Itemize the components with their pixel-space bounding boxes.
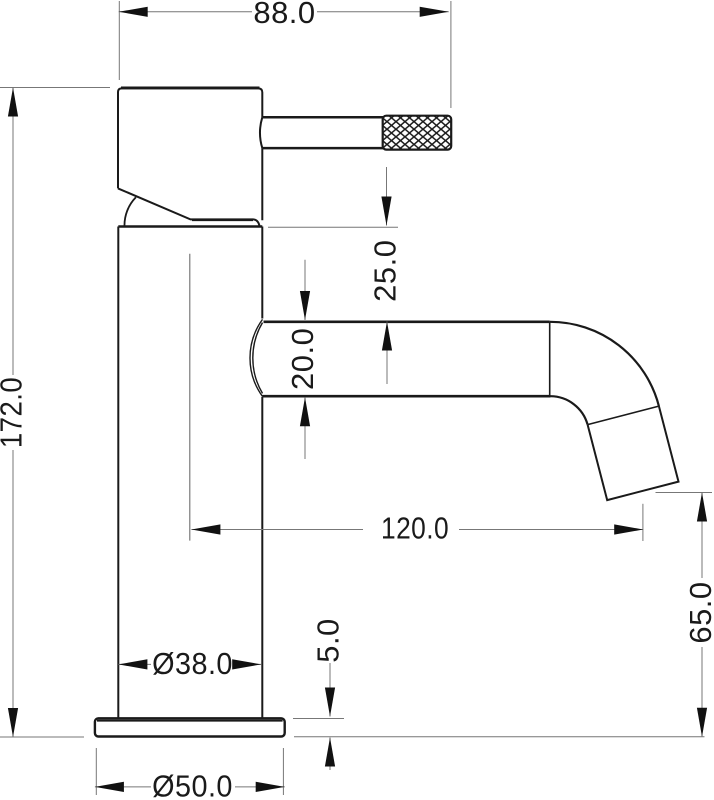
svg-text:172.0: 172.0	[0, 377, 29, 448]
svg-text:Ø50.0: Ø50.0	[152, 769, 233, 800]
spout segment joint lines	[550, 322, 659, 425]
svg-text:20.0: 20.0	[285, 328, 320, 390]
svg-text:25.0: 25.0	[368, 240, 403, 302]
svg-text:88.0: 88.0	[253, 0, 315, 30]
ball joint arc	[124, 197, 135, 226]
handle lever shaft	[260, 117, 383, 148]
ground extension line	[294, 736, 705, 738]
dimension diameter 50.0	[95, 748, 285, 800]
svg-text:65.0: 65.0	[683, 581, 714, 643]
faucet head body	[118, 88, 262, 226]
column body	[118, 227, 262, 719]
dimension 88.0 top	[119, 0, 451, 108]
column centerline	[189, 254, 191, 541]
dimension 120.0	[191, 504, 643, 546]
base plate	[95, 718, 285, 736]
dimension 65.0	[656, 493, 714, 737]
knurled grip	[383, 116, 452, 150]
base plate top bevel line	[97, 720, 283, 722]
svg-text:Ø38.0: Ø38.0	[152, 647, 233, 681]
dimension 172.0 left	[0, 88, 110, 738]
spout tube	[262, 322, 659, 425]
dimension 5.0	[293, 618, 346, 770]
spout joint arcs	[250, 319, 262, 396]
dimension 20.0	[285, 260, 320, 459]
svg-text:120.0: 120.0	[381, 511, 449, 545]
spout outlet tube	[588, 406, 679, 500]
dimension diameter 38.0	[118, 647, 261, 681]
dimension 25.0	[268, 167, 403, 384]
svg-text:5.0: 5.0	[311, 618, 346, 663]
